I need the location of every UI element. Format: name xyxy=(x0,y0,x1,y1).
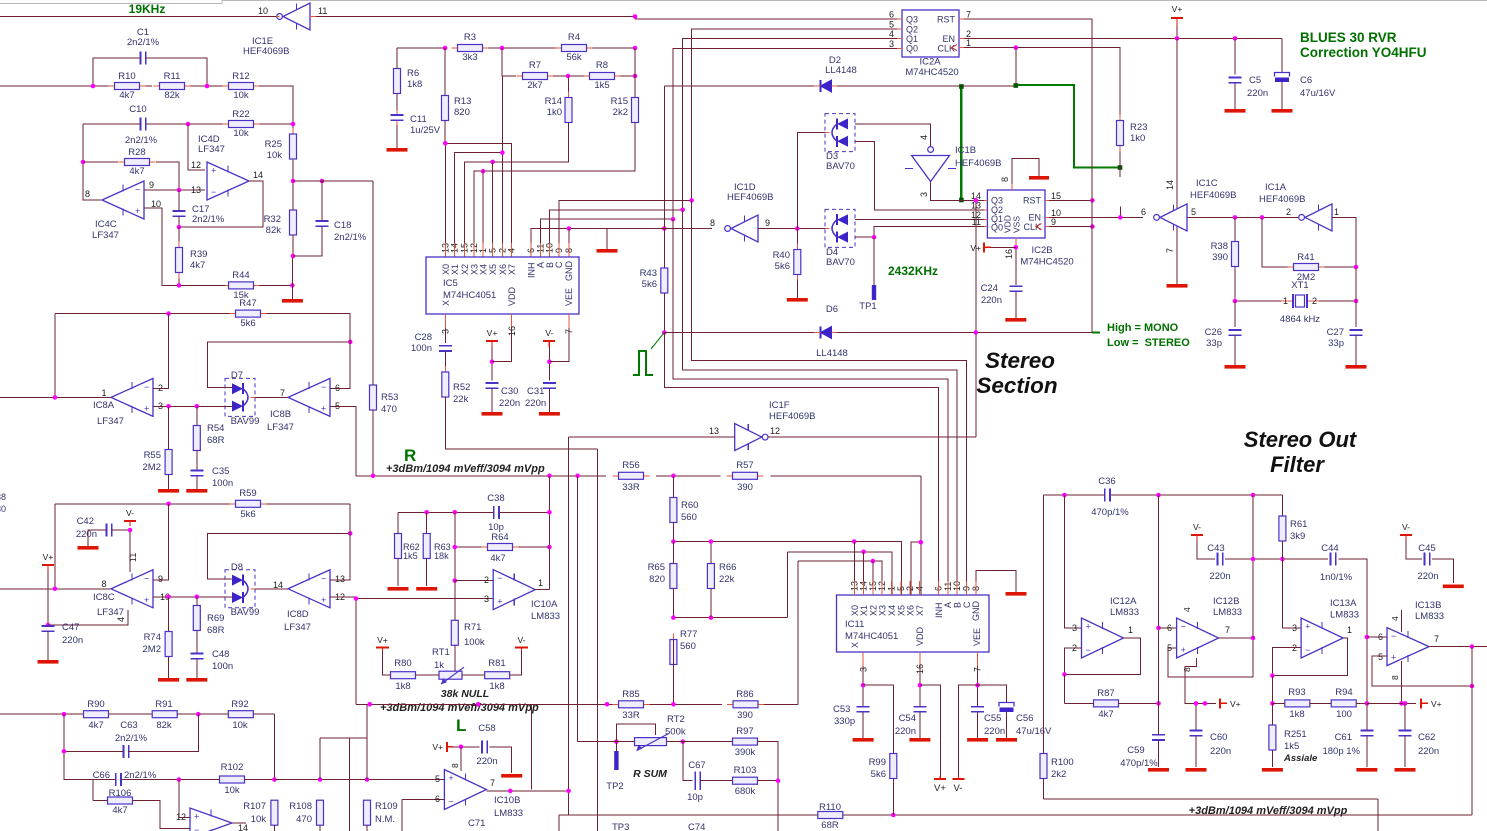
node junction D6 rail xyxy=(662,330,667,335)
svg-text:C42: C42 xyxy=(77,516,94,527)
svg-text:LM833: LM833 xyxy=(1415,611,1444,622)
wire IC10B output xyxy=(486,790,568,792)
wire R87 to C59 node xyxy=(1119,702,1159,704)
svg-text:R64: R64 xyxy=(491,532,508,543)
svg-text:1: 1 xyxy=(1334,207,1339,217)
svg-text:R86: R86 xyxy=(736,689,753,700)
wire INH staircase with R43 xyxy=(664,333,938,596)
svg-text:C59: C59 xyxy=(1127,745,1144,756)
svg-text:R44: R44 xyxy=(232,270,249,281)
op-amp IC4B partial xyxy=(190,808,232,831)
resistor R64 xyxy=(482,546,488,548)
wire IC10A pin3 xyxy=(356,598,493,600)
green wire A xyxy=(960,86,962,200)
svg-text:IC5: IC5 xyxy=(443,278,458,289)
resistor R71 xyxy=(454,614,456,620)
svg-text:V-: V- xyxy=(1193,522,1201,532)
svg-text:220n: 220n xyxy=(1247,88,1268,99)
svg-text:RT2: RT2 xyxy=(667,714,685,725)
wire x578 column to RT2 xyxy=(577,476,579,742)
wire X6 X7 rail xyxy=(911,542,921,595)
wire IC8A output rail xyxy=(0,396,111,398)
svg-text:VDD: VDD xyxy=(507,286,517,306)
wire X6/X1 rail xyxy=(501,47,503,49)
resistor R3 xyxy=(452,47,458,49)
wire R65/R66 bottom rail xyxy=(673,617,787,619)
svg-text:9: 9 xyxy=(765,218,770,228)
wire IC8B pin5 to R rail xyxy=(330,406,356,476)
svg-text:1: 1 xyxy=(1283,296,1288,306)
wire R59 rail xyxy=(55,503,236,505)
wire C66 left xyxy=(64,751,116,779)
green wire B xyxy=(1016,85,1120,168)
op-amp IC4D xyxy=(207,162,249,200)
wire L channel rail xyxy=(356,703,620,705)
svg-text:VSS: VSS xyxy=(1012,216,1022,233)
wire R80 to RT1 xyxy=(416,674,440,676)
svg-text:R52: R52 xyxy=(453,382,470,393)
svg-text:33R: 33R xyxy=(622,482,640,493)
svg-text:C54: C54 xyxy=(899,713,916,724)
svg-text:V+: V+ xyxy=(1431,699,1442,709)
capacitor C27 xyxy=(1355,301,1357,327)
svg-text:C30: C30 xyxy=(501,386,518,397)
node junction xyxy=(291,179,296,184)
wire IC13A output loop xyxy=(1272,638,1347,676)
wire IC4B output xyxy=(232,822,246,824)
svg-text:9: 9 xyxy=(158,574,163,584)
svg-text:LM833: LM833 xyxy=(494,808,523,819)
dual diode D8 BAV99 xyxy=(225,570,255,608)
svg-text:470p/1%: 470p/1% xyxy=(1120,758,1158,769)
wire R47 rail xyxy=(55,313,236,315)
wire R23 lower stub xyxy=(1119,206,1121,217)
wire D4 top output to IC2B Q1 xyxy=(855,219,984,221)
wire IC2A Q2 xyxy=(692,29,897,200)
wire RT2 to C67 xyxy=(683,742,693,781)
inverter IC1A xyxy=(1299,215,1305,221)
capacitor C5 xyxy=(1234,38,1236,74)
svg-text:220n: 220n xyxy=(525,398,546,409)
svg-text:XT1: XT1 xyxy=(1291,280,1308,291)
ground xyxy=(1443,585,1464,589)
wire select staircase to IC11 xyxy=(692,200,967,595)
svg-text:2k2: 2k2 xyxy=(1051,769,1066,780)
wire R44 rail xyxy=(179,284,225,286)
svg-text:6: 6 xyxy=(435,794,440,804)
svg-text:Q0: Q0 xyxy=(991,223,1003,233)
ground xyxy=(396,125,398,148)
svg-text:470: 470 xyxy=(296,814,312,825)
wire L rail to IC10B output xyxy=(530,704,532,789)
V+ terminal IC13B xyxy=(1420,698,1422,708)
wire IC1A input from crystal xyxy=(1332,217,1356,267)
svg-text:HEF4069B: HEF4069B xyxy=(1259,194,1305,205)
svg-text:R47: R47 xyxy=(239,298,256,309)
svg-text:220n: 220n xyxy=(62,635,83,646)
node junction R rail xyxy=(371,474,376,479)
svg-text:R22: R22 xyxy=(232,109,249,120)
wire IC2A CLK xyxy=(964,48,1120,115)
svg-text:4k7: 4k7 xyxy=(129,166,144,177)
wire RT2 left xyxy=(578,741,635,743)
svg-text:EN: EN xyxy=(1028,212,1041,222)
IC2A M74HC4520 xyxy=(902,10,959,57)
ground xyxy=(1006,592,1027,596)
svg-text:IC10B: IC10B xyxy=(494,795,520,806)
svg-text:13: 13 xyxy=(709,426,719,436)
svg-text:11: 11 xyxy=(128,553,138,562)
wire RT2 wiper loop xyxy=(616,724,655,742)
resistor R92 xyxy=(227,713,229,715)
svg-text:C58: C58 xyxy=(478,723,495,734)
svg-text:X: X xyxy=(850,642,860,648)
svg-text:IC8A: IC8A xyxy=(93,400,115,411)
wire R108 R109 top rail xyxy=(319,738,321,780)
wire x1158 column xyxy=(1158,495,1160,703)
svg-text:1k8: 1k8 xyxy=(395,681,410,692)
wire stereo output line xyxy=(1044,798,1378,800)
svg-text:3k3: 3k3 xyxy=(462,52,477,63)
svg-text:Stereo: Stereo xyxy=(985,348,1055,373)
svg-text:IC10A: IC10A xyxy=(531,599,558,610)
wire IC13B output xyxy=(1429,646,1487,648)
svg-text:−: − xyxy=(321,382,326,392)
diode D2 xyxy=(664,85,814,87)
op-amp IC4C xyxy=(102,181,144,219)
svg-text:+: + xyxy=(194,812,199,822)
svg-text:IC1A: IC1A xyxy=(1265,182,1287,193)
svg-text:2M2: 2M2 xyxy=(143,462,161,473)
svg-text:68R: 68R xyxy=(207,625,225,636)
wire D8 bottom input xyxy=(222,596,232,598)
svg-text:2: 2 xyxy=(484,575,489,585)
wire IC1F input xyxy=(569,436,735,438)
svg-text:X1: X1 xyxy=(450,264,460,275)
svg-text:GND: GND xyxy=(971,601,981,622)
inverter IC1E xyxy=(277,14,283,20)
svg-text:C45: C45 xyxy=(1418,543,1435,554)
wire D3 top output to IC1B xyxy=(855,124,931,147)
resistor R93 xyxy=(1284,702,1286,704)
wire IC8B pin6 xyxy=(330,314,350,389)
resistor R107 xyxy=(273,799,275,801)
wire IC10A output feedback xyxy=(535,589,549,591)
svg-text:C47: C47 xyxy=(62,622,79,633)
svg-text:220n: 220n xyxy=(1209,571,1230,582)
svg-text:100n: 100n xyxy=(411,343,432,354)
wire IC4C pin10 to R44 rail xyxy=(144,208,179,285)
wire C17 top xyxy=(178,190,180,211)
node junction xyxy=(177,283,182,288)
svg-text:VEE: VEE xyxy=(972,628,982,646)
wire VDD pin16 xyxy=(919,666,921,707)
svg-text:R106: R106 xyxy=(109,788,132,799)
svg-text:BLUES 30 RVR: BLUES 30 RVR xyxy=(1300,30,1397,45)
wire R12 to R25 column xyxy=(259,86,293,133)
svg-text:8: 8 xyxy=(710,218,715,228)
wire pin9 rail xyxy=(144,189,205,191)
svg-text:R39: R39 xyxy=(190,249,207,260)
svg-text:19KHz: 19KHz xyxy=(129,2,166,16)
op-amp IC10B xyxy=(444,770,486,810)
svg-text:2n2/1%: 2n2/1% xyxy=(334,232,367,243)
wire R41 ends xyxy=(1262,217,1288,267)
svg-text:LF347: LF347 xyxy=(267,422,294,433)
wire GND pin to ground xyxy=(976,570,1016,592)
svg-text:18k: 18k xyxy=(434,551,449,561)
wire R13 top/bottom xyxy=(444,48,446,96)
svg-text:IC8B: IC8B xyxy=(270,409,291,420)
wire IC13B pin6 xyxy=(1367,636,1387,638)
op-amp IC12A xyxy=(1082,618,1124,658)
svg-text:IC2A: IC2A xyxy=(919,57,941,68)
svg-text:R15: R15 xyxy=(611,96,628,107)
resistor R102 xyxy=(219,779,221,781)
svg-text:5: 5 xyxy=(1191,207,1196,217)
resistor R100 xyxy=(1043,753,1045,755)
wire IC4D feedback xyxy=(179,181,263,227)
svg-text:−: − xyxy=(211,187,216,197)
svg-text:220n: 220n xyxy=(499,398,520,409)
svg-text:6: 6 xyxy=(889,10,894,20)
svg-text:D6: D6 xyxy=(826,304,838,315)
wire IC1F input column to bottom rail xyxy=(568,437,570,815)
IC11 bottom pins xyxy=(862,652,864,666)
svg-text:R55: R55 xyxy=(144,450,161,461)
wire IC8C output rail xyxy=(0,588,111,590)
svg-text:5: 5 xyxy=(1167,643,1172,653)
capacitor C55 xyxy=(971,706,984,708)
svg-text:10k: 10k xyxy=(251,814,267,825)
svg-text:R11: R11 xyxy=(164,71,181,82)
svg-text:HEF4069B: HEF4069B xyxy=(769,411,815,422)
svg-text:1k8: 1k8 xyxy=(489,681,504,692)
svg-text:C36: C36 xyxy=(1098,476,1115,487)
wire x1092 bus xyxy=(1091,38,1093,226)
capacitor C60 xyxy=(1195,703,1197,730)
svg-text:LM833: LM833 xyxy=(1330,610,1359,621)
svg-text:R69: R69 xyxy=(207,613,224,624)
ground xyxy=(501,774,522,778)
svg-text:3: 3 xyxy=(1292,623,1297,633)
svg-text:C48: C48 xyxy=(212,649,229,660)
resistor R15 xyxy=(634,92,636,98)
svg-text:7: 7 xyxy=(490,778,495,788)
capacitor C47 xyxy=(42,625,55,627)
svg-text:4k7: 4k7 xyxy=(190,260,205,271)
svg-text:C6: C6 xyxy=(1300,75,1312,86)
wire R15 tap to X4/X3 rail xyxy=(634,48,636,98)
op-amp IC8B xyxy=(288,378,330,416)
svg-text:7: 7 xyxy=(1434,634,1439,644)
svg-text:HEF4069B: HEF4069B xyxy=(243,46,289,57)
svg-text:10p: 10p xyxy=(687,792,703,803)
wire C36 input rail xyxy=(1044,494,1105,496)
potentiometer RT2 xyxy=(635,738,667,746)
wire IC2A EN to V+ xyxy=(964,37,1282,39)
wire IC8C pin9 feedback xyxy=(153,504,169,580)
svg-text:V+: V+ xyxy=(487,328,498,338)
wire C38 rail xyxy=(398,511,494,513)
svg-text:1k0: 1k0 xyxy=(1130,133,1145,144)
svg-text:RST: RST xyxy=(1023,195,1042,205)
resistor R57 xyxy=(727,475,733,477)
wire IC2B pin8 to ground xyxy=(1012,158,1039,190)
resistor R56 xyxy=(613,475,619,477)
svg-text:LM833: LM833 xyxy=(1110,607,1139,618)
wire V+ column IC1C xyxy=(1176,38,1178,284)
wire R28 to pin9 rail xyxy=(83,161,118,163)
svg-text:390: 390 xyxy=(737,710,753,721)
svg-text:11: 11 xyxy=(318,6,327,16)
svg-text:C5: C5 xyxy=(1249,75,1261,86)
ground xyxy=(78,546,99,550)
svg-text:Correction YO4HFU: Correction YO4HFU xyxy=(1300,45,1427,60)
svg-text:7: 7 xyxy=(966,10,971,20)
resistor R39 xyxy=(178,242,180,248)
svg-text:V+: V+ xyxy=(43,552,54,562)
node junction R60 xyxy=(671,474,676,479)
svg-text:X4: X4 xyxy=(479,264,489,275)
svg-text:8: 8 xyxy=(101,579,106,589)
wire R64 left xyxy=(455,512,482,547)
svg-text:8: 8 xyxy=(1390,675,1400,680)
svg-text:M74HC4051: M74HC4051 xyxy=(845,631,898,642)
node junction xyxy=(81,160,86,165)
resistor R14 xyxy=(568,76,570,95)
svg-text:5k6: 5k6 xyxy=(240,509,255,520)
node junction bottom rail xyxy=(891,813,896,818)
svg-text:10k: 10k xyxy=(267,150,283,161)
wire IC10A pin2 column xyxy=(454,547,456,581)
svg-text:R41: R41 xyxy=(1297,252,1314,263)
svg-text:4864 kHz: 4864 kHz xyxy=(1280,314,1320,325)
svg-text:R77: R77 xyxy=(680,629,697,640)
wire to R87 xyxy=(1064,674,1066,703)
svg-text:C38: C38 xyxy=(487,493,504,504)
resistor R41 xyxy=(1288,266,1294,268)
V+ terminal xyxy=(984,246,1016,248)
svg-text:V-: V- xyxy=(545,328,553,338)
wire C63 loop xyxy=(64,714,123,751)
wire x1253 from input rail xyxy=(1252,495,1254,559)
wire V+ drop xyxy=(920,685,940,776)
svg-text:560: 560 xyxy=(680,641,696,652)
svg-text:R6: R6 xyxy=(407,68,419,79)
node junction select bus xyxy=(689,198,694,203)
capacitor C11 xyxy=(396,110,398,115)
svg-text:R99: R99 xyxy=(869,757,886,768)
svg-text:7: 7 xyxy=(1165,248,1175,253)
test point TP2 xyxy=(615,742,617,751)
resistor R81 xyxy=(484,674,486,676)
svg-text:−: − xyxy=(194,825,199,831)
wire C43 column to output xyxy=(1252,559,1254,638)
svg-text:LL4148: LL4148 xyxy=(816,348,848,359)
svg-text:Low = STEREO: Low = STEREO xyxy=(1107,337,1190,349)
svg-text:IC1F: IC1F xyxy=(769,400,790,411)
svg-text:4: 4 xyxy=(1390,616,1400,621)
wire IC13B pin4 stub xyxy=(1401,610,1403,632)
svg-text:1k5: 1k5 xyxy=(403,551,418,561)
node junction L rail xyxy=(476,702,481,707)
wire IC2A Q1 xyxy=(683,39,897,210)
svg-text:6: 6 xyxy=(1167,623,1172,633)
svg-text:Section: Section xyxy=(976,373,1057,398)
wire R66 top xyxy=(710,542,712,564)
svg-text:82k: 82k xyxy=(266,225,282,236)
node junction xyxy=(166,502,171,507)
svg-text:5: 5 xyxy=(889,20,894,30)
wire IC2A Q0 xyxy=(673,48,897,219)
svg-text:R43: R43 xyxy=(640,268,657,279)
node junction xyxy=(443,46,448,51)
svg-text:R103: R103 xyxy=(734,765,757,776)
svg-text:+: + xyxy=(1181,645,1186,655)
wire R59 left drop xyxy=(54,504,56,589)
resistor R40 xyxy=(796,244,798,250)
wire R86 column xyxy=(797,561,799,704)
svg-text:12: 12 xyxy=(176,812,186,822)
inverter IC1F xyxy=(762,434,768,440)
svg-text:+: + xyxy=(144,595,149,605)
wire C10 rail y124 xyxy=(83,123,140,125)
svg-text:220n: 220n xyxy=(1418,746,1439,757)
wire C44 right corner down xyxy=(1338,559,1367,703)
svg-text:R56: R56 xyxy=(622,460,639,471)
wire R94 right xyxy=(1356,702,1367,704)
svg-text:47u/16V: 47u/16V xyxy=(1016,726,1052,737)
svg-text:C71: C71 xyxy=(468,818,485,829)
IC5 M74HC4051 xyxy=(426,257,579,314)
resistor R103 xyxy=(732,780,734,782)
svg-text:R54: R54 xyxy=(207,423,224,434)
wire IC4D pin12 drop xyxy=(188,124,205,170)
svg-text:R28: R28 xyxy=(128,147,145,158)
svg-text:V-: V- xyxy=(517,635,525,645)
wire select rails from IC5 xyxy=(559,200,692,243)
svg-text:L: L xyxy=(456,716,466,735)
wire main rail y86 xyxy=(0,85,110,87)
capacitor C67 xyxy=(694,772,696,791)
svg-text:Q0: Q0 xyxy=(906,44,918,54)
resistor R74 xyxy=(168,626,170,632)
resistor R85 xyxy=(613,703,619,705)
wire IC8A pin3 rail xyxy=(153,405,222,407)
wire VEE pin7 xyxy=(977,666,979,707)
capacitor C42 xyxy=(105,524,107,537)
svg-text:1k5: 1k5 xyxy=(1284,741,1299,752)
svg-text:470: 470 xyxy=(381,404,397,415)
node junction xyxy=(177,225,182,230)
svg-text:560: 560 xyxy=(681,512,697,523)
svg-text:+3dBm/1094 mVeff/3094 mVpp: +3dBm/1094 mVeff/3094 mVpp xyxy=(386,463,545,475)
svg-text:IC1B: IC1B xyxy=(955,145,976,156)
svg-text:−: − xyxy=(321,573,326,583)
svg-text:M74HC4051: M74HC4051 xyxy=(443,290,496,301)
svg-text:−: − xyxy=(1181,622,1186,632)
svg-text:R109: R109 xyxy=(375,801,398,812)
svg-text:RST: RST xyxy=(937,15,956,25)
resistor R60 xyxy=(672,492,674,498)
wire D2 to CLK xyxy=(1015,48,1017,86)
svg-text:IC13A: IC13A xyxy=(1330,598,1357,609)
resistor R53 xyxy=(372,379,374,385)
svg-text:R57: R57 xyxy=(736,460,753,471)
resistor R108 xyxy=(319,799,321,801)
wire X out to R99 xyxy=(863,685,893,753)
